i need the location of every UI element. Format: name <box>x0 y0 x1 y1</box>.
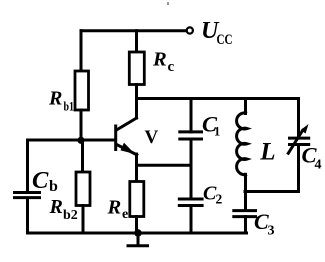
collector lead <box>135 99 138 119</box>
wire emitter rail <box>137 164 192 167</box>
label C1 <box>202 112 220 139</box>
wire Rc top lead <box>135 31 138 52</box>
svg-text:4: 4 <box>315 158 322 173</box>
node ground junction dot <box>134 229 142 237</box>
capacitor C1 <box>178 132 203 139</box>
capacitor C3 <box>232 211 257 217</box>
label Ucc <box>201 18 233 48</box>
label Cb <box>32 167 58 195</box>
wire C4 bottom lead <box>297 145 300 192</box>
wire C1-C2 link <box>190 139 193 199</box>
wire L branch top lead <box>244 99 247 114</box>
svg-text:3: 3 <box>268 224 275 239</box>
label Rb2 <box>49 196 78 223</box>
label Re <box>107 197 129 223</box>
svg-text:b1: b1 <box>64 99 75 114</box>
base bar <box>114 125 117 152</box>
label C2 <box>203 183 223 207</box>
wire supply rail top <box>81 29 186 32</box>
wire Rc bottom lead <box>135 85 138 99</box>
wire Cb bottom lead <box>26 199 29 233</box>
svg-text:C: C <box>32 167 49 194</box>
svg-text:c: c <box>168 59 175 75</box>
inductor L <box>237 113 247 175</box>
ground <box>127 233 150 246</box>
wire C3 top lead <box>244 192 247 211</box>
wire Rb2 bottom lead <box>82 206 85 234</box>
wire tank bottom link rail <box>245 190 298 193</box>
svg-text:1: 1 <box>214 125 220 139</box>
wire C2 bottom lead <box>190 206 193 234</box>
svg-text:b: b <box>49 178 58 195</box>
wire bottom rail <box>28 232 247 235</box>
wire L bottom lead <box>244 174 247 191</box>
node Ucc terminal <box>187 27 193 33</box>
wire Re top lead <box>135 165 138 181</box>
svg-text:R: R <box>49 196 63 218</box>
svg-text:R: R <box>48 88 62 110</box>
wire left branch top lead <box>80 31 83 71</box>
label C3 <box>254 209 275 239</box>
capacitor C2 <box>178 199 204 206</box>
speck <box>167 2 169 5</box>
label C4 <box>302 143 322 173</box>
resistor Rb2 <box>76 172 90 206</box>
label Rb1 <box>48 88 74 114</box>
capacitor C4 variable <box>288 124 311 155</box>
node base junction dot <box>77 137 84 144</box>
svg-text:b2: b2 <box>63 208 78 223</box>
svg-text:R: R <box>152 49 167 71</box>
wire Rb1 bottom lead <box>80 110 83 140</box>
resistor Rc <box>129 52 144 85</box>
wire collector rail to tank <box>137 97 299 100</box>
svg-text:2: 2 <box>216 192 223 207</box>
wire base rail <box>28 139 116 142</box>
svg-text:R: R <box>107 197 122 219</box>
capacitor Cb <box>13 193 41 198</box>
svg-text:L: L <box>259 139 275 166</box>
label Rc <box>152 49 175 76</box>
transistor V <box>116 99 137 166</box>
svg-text:e: e <box>122 207 128 222</box>
wire C4 branch top lead <box>297 99 300 139</box>
wire Rb2 top lead <box>81 140 84 172</box>
svg-text:CC: CC <box>217 32 233 48</box>
svg-text:V: V <box>145 127 159 148</box>
wire Re bottom lead <box>135 217 138 234</box>
wire C3 bottom lead <box>244 217 247 233</box>
resistor Rb1 <box>75 71 89 110</box>
resistor Re <box>130 182 144 217</box>
emitter with arrow <box>117 145 137 155</box>
wire Cb top lead <box>26 140 29 191</box>
wire C1 branch top lead <box>190 99 193 132</box>
